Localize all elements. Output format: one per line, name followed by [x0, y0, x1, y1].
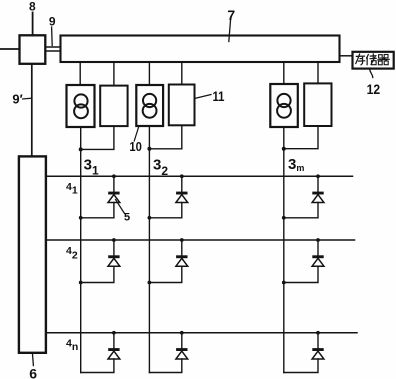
- wire driver box to ballast box 11m: [317, 62, 319, 83]
- memory box 12: [353, 52, 394, 69]
- row wire 4_2: [46, 239, 355, 241]
- leader from transformer T2 to label 10: [134, 127, 139, 142]
- transformer box T2: [136, 85, 163, 126]
- input interface box (8/9): [20, 35, 46, 64]
- diode D21 anode triangle: [108, 258, 120, 266]
- node: diode D2m cathode on row 4_2: [316, 238, 320, 242]
- wire row 4_2 to diode D2m cathode: [317, 240, 319, 255]
- svg-text:11: 11: [213, 88, 225, 104]
- svg-text:9: 9: [49, 14, 56, 28]
- wire ballast 11 down and left to junction: [149, 125, 181, 149]
- node: diode D12 cathode on row 4_1: [180, 174, 184, 178]
- scan box 6: [19, 156, 46, 352]
- wire Tm to junction: [283, 127, 285, 149]
- wire diode D11 anode down and left to column 3_1: [81, 203, 114, 218]
- bus wire upper (box 9 to box 7): [45, 46, 60, 48]
- diode D12 anode triangle: [176, 195, 188, 203]
- diode D11 cathode bar: [108, 192, 119, 195]
- wire diode D12 anode down and left to column 3_2: [149, 203, 181, 218]
- leader from ballast box 11 to label 11: [195, 95, 212, 99]
- wire row 4_1 to diode D1m cathode: [317, 176, 319, 191]
- label memory text 存储器 (hand-drawn strokes): [356, 54, 390, 65]
- leader from label 9 to bus: [51, 27, 54, 46]
- node: stub joins column 3_2: [148, 281, 152, 285]
- Tm coil circle upper: [277, 94, 290, 107]
- node: diode D21 cathode on row 4_2: [112, 238, 116, 242]
- row wire 4_1: [46, 175, 353, 177]
- column wire 3_m: [283, 149, 285, 373]
- wire driver box to memory box: [340, 55, 353, 57]
- wire diode Dn1 anode down and left to column 3_1: [81, 359, 114, 373]
- wire ballast 11a down and left to junction: [81, 126, 114, 149]
- diode D21 cathode bar: [108, 255, 119, 258]
- node: diode Dn1 cathode on row 4_n: [112, 331, 116, 335]
- node: diode Dn2 cathode on row 4_n: [180, 331, 184, 335]
- wire row 4_n to diode Dn1 cathode: [113, 333, 115, 348]
- char 储: [367, 54, 369, 58]
- column wire 3_1: [80, 149, 82, 372]
- wire T1 to junction: [80, 127, 82, 149]
- leader from label 9' to wire: [23, 97, 32, 100]
- svg-text:8: 8: [29, 0, 36, 14]
- node: diode D1m cathode on row 4_1: [316, 174, 320, 178]
- diode Dnm anode triangle: [312, 351, 324, 359]
- wire row 4_2 to diode D22 cathode: [181, 240, 183, 255]
- ballast box 11a: [100, 86, 127, 127]
- wire row 4_1 to diode D12 cathode: [181, 176, 183, 191]
- bus wire lower (box 9 to box 7): [45, 50, 60, 52]
- svg-text:12: 12: [367, 81, 381, 97]
- wire diode Dnm anode down and left to column 3_m: [284, 359, 318, 373]
- char 器: [379, 55, 383, 58]
- svg-text:10: 10: [129, 139, 142, 154]
- wire driver box to ballast box 11a: [113, 62, 115, 86]
- wire diode D22 anode down and left to column 3_2: [149, 266, 181, 282]
- wire driver box to transformer Tm: [283, 62, 285, 84]
- diode D22 cathode bar: [176, 255, 187, 258]
- svg-text:9′: 9′: [12, 91, 22, 106]
- diode D11 anode triangle: [108, 195, 120, 203]
- diode Dn1 anode triangle: [108, 351, 120, 359]
- node: diode D22 cathode on row 4_2: [180, 238, 184, 242]
- node: stub joins column 3_m: [282, 281, 286, 285]
- leader from memory box to label 12: [370, 69, 373, 78]
- node: diode D11 cathode on row 4_1: [112, 174, 116, 178]
- svg-text:6: 6: [29, 366, 37, 379]
- svg-text:7: 7: [227, 7, 235, 23]
- node: stub joins column 3_1: [79, 216, 83, 220]
- junction node column 2: [147, 147, 151, 151]
- wire diode D21 anode down and left to column 3_1: [81, 266, 114, 282]
- leader from scan box to label 6: [32, 353, 33, 366]
- T1 coil circle upper: [74, 94, 87, 107]
- wire driver box to ballast box 11: [181, 62, 183, 85]
- wire row 4_1 to diode D11 cathode: [113, 176, 115, 191]
- diode D2m anode triangle: [312, 258, 324, 266]
- diode D2m cathode bar: [312, 255, 323, 258]
- T2 coil circle lower: [143, 104, 157, 118]
- wire driver box to transformer T1: [79, 62, 81, 85]
- T1 coil circle lower: [74, 104, 88, 118]
- wire row 4_n to diode Dnm cathode: [317, 333, 319, 348]
- char 存: [356, 55, 364, 57]
- junction node column m: [282, 147, 286, 151]
- leader from diode D11 to label 5: [116, 200, 125, 214]
- diode D12 cathode bar: [176, 192, 187, 195]
- diode D22 anode triangle: [176, 258, 188, 266]
- wire T2 to junction: [148, 126, 150, 149]
- T2 coil circle upper: [143, 94, 156, 107]
- node: diode Dnm cathode on row 4_n: [316, 331, 320, 335]
- wire diode D2m anode down and left to column 3_m: [284, 266, 318, 282]
- wire row 4_n to diode Dn2 cathode: [181, 333, 183, 348]
- wire input lead into box 9: [0, 48, 20, 50]
- wire diode D1m anode down and left to column 3_m: [284, 203, 318, 218]
- wire ballast 11m down and left to junction: [284, 126, 318, 149]
- wire 9' from box 9 down to scan box 6: [31, 64, 33, 157]
- row wire 4_n: [46, 332, 357, 334]
- ballast box 11m: [304, 83, 331, 126]
- junction node column 1: [79, 147, 83, 151]
- diode Dn2 cathode bar: [176, 348, 187, 351]
- transformer box Tm: [270, 84, 298, 127]
- wire driver box to transformer T2: [148, 62, 150, 85]
- diode Dn1 cathode bar: [108, 348, 119, 351]
- diode Dn2 anode triangle: [176, 351, 188, 359]
- wire row 4_2 to diode D21 cathode: [113, 240, 115, 255]
- diode Dnm cathode bar: [312, 348, 323, 351]
- node: stub joins column 3_2: [148, 216, 152, 220]
- node: stub joins column 3_m: [282, 216, 286, 220]
- ballast box 11: [169, 85, 195, 126]
- wire diode Dn2 anode down and left to column 3_2: [149, 359, 181, 373]
- Tm coil circle lower: [277, 104, 291, 118]
- node: stub joins column 3_1: [79, 281, 83, 285]
- driver box 7: [61, 36, 340, 63]
- transformer box T1: [67, 85, 95, 127]
- column wire 3_2: [148, 149, 150, 373]
- leader from label 7 to driver box: [229, 21, 231, 42]
- wire from label 8 down to box 9: [32, 13, 34, 36]
- diode D1m cathode bar: [312, 192, 323, 195]
- diode D1m anode triangle: [312, 195, 324, 203]
